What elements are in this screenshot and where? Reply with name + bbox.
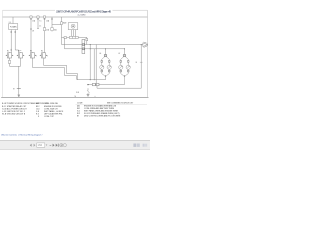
- svg-text:ACC POWER CIRCUIT: ACC POWER CIRCUIT: [7, 107, 28, 110]
- svg-text:2E: 2E: [32, 30, 34, 32]
- svg-text:CODE: CODE: [77, 102, 83, 104]
- svg-text:7.5: 7.5: [39, 20, 41, 22]
- svg-text:LEFT QUARTER PNL: LEFT QUARTER PNL: [44, 113, 63, 116]
- svg-text:SEE COMBINED SOURCE LIST: SEE COMBINED SOURCE LIST: [107, 102, 134, 104]
- svg-text:R2: R2: [18, 51, 20, 53]
- svg-text:2.0L: 2.0L: [9, 22, 12, 24]
- svg-text:FL MAIN: FL MAIN: [10, 25, 17, 28]
- svg-text:40A: 40A: [46, 29, 49, 32]
- svg-text:STARTER RELAY CKT: STARTER RELAY CKT: [7, 105, 27, 108]
- svg-text:GROUND CIRCUIT B: GROUND CIRCUIT B: [7, 114, 26, 116]
- svg-text:1: 1: [36, 55, 37, 57]
- svg-text:INST PANEL, LH KICK: INST PANEL, LH KICK: [44, 110, 64, 113]
- svg-text:2C: 2C: [39, 26, 42, 28]
- svg-text:IH: IH: [13, 89, 15, 91]
- svg-text:R1: R1: [7, 51, 9, 53]
- svg-text:POWER SOURCE CIRCUIT AND IGNIT: POWER SOURCE CIRCUIT AND IGNITION SW: [7, 102, 48, 105]
- svg-text:AM2: AM2: [63, 22, 66, 25]
- svg-text:10A: 10A: [46, 19, 49, 22]
- svg-text:30A: 30A: [54, 29, 57, 32]
- svg-text:1/94: 1/94: [38, 145, 43, 147]
- svg-text:F: F: [38, 116, 40, 118]
- svg-text:IE: IE: [77, 115, 80, 117]
- svg-text:1996 TOYOTA 4RUNNER POWER SOU: 1996 TOYOTA 4RUNNER POWER SOURCE and WIR…: [56, 10, 111, 13]
- svg-text:15A: 15A: [32, 19, 35, 22]
- svg-text:A21: A21: [36, 102, 39, 105]
- svg-text:R4: R4: [41, 51, 43, 53]
- svg-text:4WD CONTROL WIRE AND FLOOR WIR: 4WD CONTROL WIRE AND FLOOR WIRE: [84, 114, 121, 117]
- svg-text:A7: A7: [119, 52, 121, 55]
- svg-text:COWL TOP: COWL TOP: [44, 116, 55, 118]
- svg-text:W-B: W-B: [76, 92, 79, 94]
- svg-text:R3: R3: [30, 51, 32, 53]
- svg-text:IE: IE: [136, 62, 137, 64]
- svg-text:4Runner Contents | Electrica: 4Runner Contents | Electrical Wiring Dia…: [1, 133, 43, 136]
- svg-text:4–2 4WD: 4–2 4WD: [78, 14, 87, 16]
- svg-text:5: 5: [47, 55, 48, 57]
- svg-text:A6: A6: [100, 52, 102, 55]
